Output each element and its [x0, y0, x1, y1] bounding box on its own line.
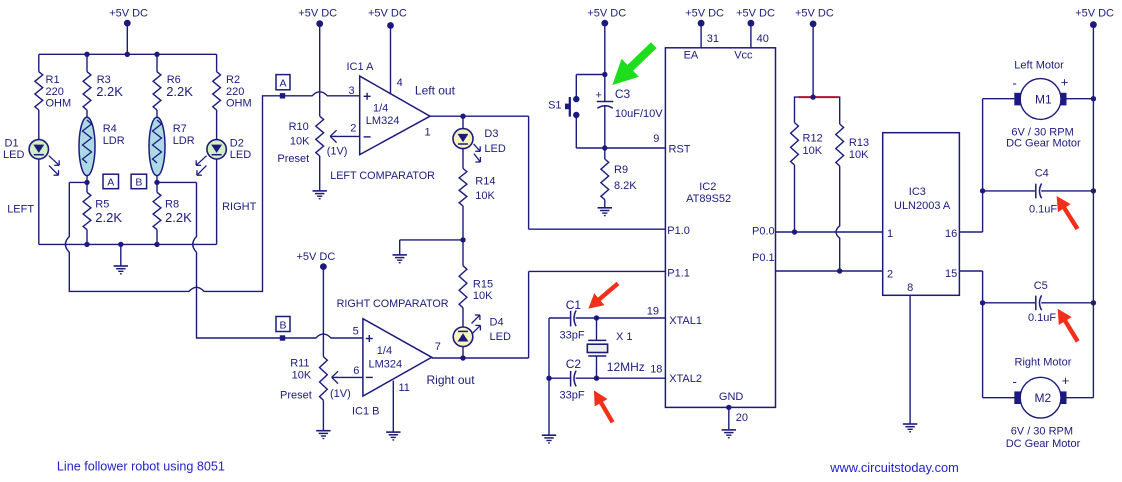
- junction dot R14/R15: [460, 237, 465, 242]
- junction dots ground rail: [84, 242, 159, 247]
- label LEFT COMPARATOR: [330, 170, 435, 182]
- wire P0.1 to IC3 pin 2: [776, 268, 883, 273]
- IC U3 ULN2003A body: [883, 133, 960, 296]
- svg-text:0.1uF: 0.1uF: [1028, 312, 1056, 324]
- wire RST to IC2 pin 9: [576, 133, 665, 148]
- preset R10 10K: [277, 116, 347, 191]
- svg-text:+5V DC: +5V DC: [736, 8, 775, 20]
- label Left out: [415, 83, 456, 97]
- svg-text:www.circuitstoday.com: www.circuitstoday.com: [829, 460, 958, 475]
- svg-text:R12: R12: [803, 133, 823, 145]
- svg-text:Right Motor: Right Motor: [1015, 357, 1072, 369]
- D1 emission arrows: [49, 156, 59, 176]
- svg-text:R7: R7: [173, 123, 187, 135]
- svg-text:33pF: 33pF: [560, 329, 585, 341]
- svg-text:-: -: [1013, 374, 1017, 389]
- capacitor C5 0.1uF: [980, 280, 1096, 324]
- push button S1: [548, 75, 605, 149]
- svg-text:IC2: IC2: [699, 181, 716, 193]
- svg-text:C1: C1: [566, 298, 582, 312]
- svg-text:1/4: 1/4: [373, 103, 388, 115]
- svg-text:2.2K: 2.2K: [96, 84, 123, 99]
- svg-text:3: 3: [349, 85, 355, 97]
- svg-text:R13: R13: [849, 137, 869, 149]
- junction dot RST: [602, 145, 607, 150]
- svg-text:XTAL1: XTAL1: [669, 315, 702, 327]
- D4 emission arrows: [472, 315, 481, 334]
- svg-text:6: 6: [353, 365, 359, 377]
- wire IC1B output to IC2 P1.1: [432, 271, 666, 358]
- svg-text:LDR: LDR: [103, 135, 125, 147]
- svg-text:4: 4: [397, 77, 403, 89]
- +5V DC supply (sensor block): [109, 8, 148, 55]
- svg-text:A: A: [279, 78, 286, 90]
- svg-text:1: 1: [425, 126, 431, 138]
- svg-text:10K: 10K: [849, 149, 869, 161]
- node B label box: [131, 174, 147, 189]
- svg-text:RIGHT COMPARATOR: RIGHT COMPARATOR: [337, 298, 449, 310]
- svg-text:IC1 A: IC1 A: [347, 61, 375, 73]
- op-amp IC1B 1/4 LM324: [352, 319, 441, 418]
- ground spur (R14/R15 node): [393, 240, 464, 263]
- LED D1: [3, 137, 49, 244]
- svg-text:10K: 10K: [803, 145, 823, 157]
- +5V DC supply (R10 preset): [298, 8, 337, 117]
- svg-text:AT89S52: AT89S52: [686, 193, 731, 205]
- resistor R14 10K: [459, 169, 495, 240]
- svg-text:9: 9: [653, 133, 659, 145]
- svg-text:+5V DC: +5V DC: [298, 8, 337, 20]
- motor M2: [1006, 357, 1094, 451]
- resistor R8 2.2K: [153, 182, 192, 244]
- ground (R11): [316, 431, 330, 439]
- red arrow pointing at C5: [1058, 309, 1080, 343]
- +5V DC supply (R11 preset): [296, 251, 335, 357]
- svg-text:R1: R1: [46, 74, 60, 86]
- svg-text:C3: C3: [615, 87, 631, 101]
- wire IC3 pin 15 to right motor: [959, 271, 1014, 398]
- node A label box: [103, 174, 119, 189]
- svg-text:+5V DC: +5V DC: [587, 8, 626, 20]
- junction dot XTAL2: [594, 376, 599, 381]
- svg-text:-: -: [1013, 76, 1017, 91]
- svg-text:8.2K: 8.2K: [614, 180, 637, 192]
- svg-text:5: 5: [353, 325, 359, 337]
- svg-text:B: B: [279, 319, 286, 331]
- svg-text:DC Gear Motor: DC Gear Motor: [1006, 438, 1081, 450]
- power rail +5V sensor block: [39, 53, 217, 55]
- node B label box at comparator: [276, 317, 290, 332]
- svg-text:X 1: X 1: [616, 331, 633, 343]
- svg-text:31: 31: [707, 33, 719, 45]
- svg-text:R9: R9: [614, 164, 628, 176]
- IC1B pin 11 ground wire: [386, 381, 400, 440]
- svg-text:10K: 10K: [292, 370, 312, 382]
- svg-text:16: 16: [945, 228, 957, 240]
- svg-text:LM324: LM324: [369, 359, 403, 371]
- svg-text:+5V DC: +5V DC: [1075, 8, 1114, 20]
- svg-text:18: 18: [650, 364, 662, 376]
- svg-text:19: 19: [647, 305, 659, 317]
- LED D3: [453, 116, 506, 168]
- svg-text:+5V DC: +5V DC: [795, 8, 834, 20]
- svg-text:LEFT: LEFT: [7, 203, 34, 215]
- svg-text:8: 8: [907, 282, 913, 294]
- label RIGHT COMPARATOR: [337, 298, 449, 310]
- label LEFT: [7, 203, 34, 215]
- node A junction: [84, 180, 89, 185]
- +5V DC supply (pull-ups): [795, 8, 834, 98]
- red arrow pointing at C1: [588, 282, 619, 309]
- svg-text:R2: R2: [226, 74, 240, 86]
- svg-text:RIGHT: RIGHT: [222, 201, 257, 213]
- svg-text:M2: M2: [1035, 391, 1052, 405]
- node B tap square: [280, 335, 285, 340]
- svg-text:D2: D2: [230, 137, 244, 149]
- LDR R4: [79, 117, 125, 182]
- svg-text:M1: M1: [1035, 92, 1052, 106]
- svg-text:+5V DC: +5V DC: [109, 8, 148, 20]
- svg-text:+5V DC: +5V DC: [685, 8, 724, 20]
- svg-text:S1: S1: [548, 100, 561, 112]
- svg-text:10uF/10V: 10uF/10V: [615, 108, 663, 120]
- svg-text:7: 7: [435, 341, 441, 353]
- svg-text:220: 220: [46, 86, 64, 98]
- junction dot M1 right: [1091, 96, 1096, 101]
- node A label box at comparator: [276, 75, 290, 90]
- svg-text:2: 2: [887, 269, 893, 281]
- svg-text:2.2K: 2.2K: [166, 84, 193, 99]
- D3 emission arrows: [474, 144, 481, 162]
- svg-text:2.2K: 2.2K: [165, 210, 192, 225]
- svg-text:12MHz: 12MHz: [607, 360, 645, 374]
- title text: [57, 459, 225, 473]
- IC3 pin 8 ground: [903, 295, 917, 432]
- svg-text:GND: GND: [719, 391, 744, 403]
- svg-text:RST: RST: [669, 143, 691, 155]
- svg-text:LDR: LDR: [173, 135, 195, 147]
- ground (R10): [313, 191, 327, 199]
- label pin 19: [647, 305, 659, 317]
- svg-text:Vcc: Vcc: [734, 49, 753, 61]
- svg-text:+: +: [1061, 75, 1069, 90]
- svg-text:Preset: Preset: [280, 389, 312, 401]
- resistor R6 2.2K: [153, 54, 193, 117]
- svg-text:LED: LED: [3, 149, 24, 161]
- IC2 pin Vcc 40: [734, 8, 775, 62]
- svg-text:10K: 10K: [475, 190, 495, 202]
- svg-text:0.1uF: 0.1uF: [1029, 204, 1057, 216]
- motor M1: [1006, 60, 1093, 150]
- svg-text:33pF: 33pF: [560, 389, 585, 401]
- +5V DC supply (reset): [587, 8, 626, 102]
- svg-text:(1V): (1V): [330, 388, 351, 400]
- svg-text:D4: D4: [490, 317, 504, 329]
- svg-text:B: B: [135, 177, 142, 189]
- svg-text:R4: R4: [103, 123, 117, 135]
- svg-text:Preset: Preset: [277, 153, 309, 165]
- red arrow pointing at C4: [1057, 196, 1080, 230]
- svg-text:C5: C5: [1034, 280, 1048, 292]
- resistor R9 8.2K: [601, 148, 637, 208]
- svg-text:OHM: OHM: [46, 97, 72, 109]
- node A tap square: [280, 93, 285, 98]
- svg-text:+: +: [1062, 373, 1070, 388]
- junction dot XTAL1: [594, 315, 599, 320]
- LED D4: [453, 317, 511, 358]
- IC2 pin labels right: [752, 225, 775, 264]
- svg-text:11: 11: [399, 382, 410, 394]
- resistor R2 220 OHM: [213, 54, 252, 140]
- preset R11 10K: [280, 357, 351, 431]
- resistor R12 10K: [791, 123, 823, 232]
- svg-text:XTAL2: XTAL2: [669, 373, 702, 385]
- svg-text:R5: R5: [95, 198, 109, 210]
- pull-up bus bar: [795, 94, 840, 124]
- resistor R1 220 OHM: [35, 54, 71, 140]
- resistor R15 10K: [459, 240, 493, 327]
- svg-text:+5V DC: +5V DC: [296, 251, 335, 263]
- svg-text:220: 220: [226, 86, 244, 98]
- svg-text:R11: R11: [290, 357, 309, 369]
- red arrow pointing at C2: [594, 390, 615, 423]
- ground (sensor block): [114, 244, 128, 273]
- svg-text:LM324: LM324: [366, 115, 400, 127]
- LDR R7: [149, 117, 195, 182]
- svg-text:Right out: Right out: [427, 373, 476, 387]
- R11 wiper arrow to IC1B pin 6: [332, 371, 363, 383]
- svg-text:D3: D3: [484, 128, 498, 140]
- svg-text:2: 2: [350, 122, 356, 134]
- IC2 pin GND 20: [719, 391, 748, 438]
- node B junction: [154, 180, 159, 185]
- svg-text:EA: EA: [684, 49, 699, 61]
- svg-text:6V / 30 RPM: 6V / 30 RPM: [1011, 426, 1073, 438]
- ground (R9): [598, 208, 612, 216]
- wire IC3 pin 16 to left motor: [959, 99, 1014, 232]
- svg-text:(1V): (1V): [327, 146, 348, 158]
- svg-text:P1.0: P1.0: [667, 225, 690, 237]
- svg-text:LEFT COMPARATOR: LEFT COMPARATOR: [330, 170, 435, 182]
- resistor R5 2.2K: [83, 182, 122, 244]
- +5V DC supply (motors): [1075, 8, 1114, 398]
- svg-text:ULN2003 A: ULN2003 A: [894, 200, 951, 212]
- svg-text:R10: R10: [289, 121, 309, 133]
- svg-text:R8: R8: [165, 198, 179, 210]
- svg-text:20: 20: [736, 412, 748, 424]
- svg-text:+: +: [596, 89, 602, 101]
- wire IC1A output to IC2 P1.0: [430, 116, 665, 229]
- svg-text:40: 40: [757, 33, 769, 45]
- label pin 18: [650, 364, 662, 376]
- svg-text:P0.1: P0.1: [752, 252, 775, 264]
- svg-text:A: A: [107, 177, 114, 189]
- svg-text:R14: R14: [475, 176, 495, 188]
- LED D2: [207, 137, 251, 244]
- crystal X1 12MHz: [587, 318, 645, 378]
- svg-text:IC3: IC3: [909, 186, 926, 198]
- svg-text:1/4: 1/4: [377, 345, 392, 357]
- label Right out: [427, 373, 476, 387]
- label RIGHT: [222, 201, 257, 213]
- svg-text:IC1 B: IC1 B: [352, 405, 380, 417]
- website text: [829, 460, 958, 475]
- svg-text:P0.0: P0.0: [752, 225, 775, 237]
- capacitor C1 33pF: [549, 298, 665, 342]
- svg-text:C4: C4: [1035, 167, 1049, 179]
- IC2 pin EA 31: [684, 8, 724, 62]
- svg-text:DC Gear Motor: DC Gear Motor: [1006, 138, 1081, 150]
- svg-text:LED: LED: [490, 331, 511, 343]
- IC3 pin number labels: [887, 228, 957, 294]
- svg-text:Left Motor: Left Motor: [1014, 60, 1064, 72]
- resistor R3 2.2K: [83, 54, 123, 117]
- wire C1/C2 ground leg: [542, 318, 556, 443]
- IC2 pin labels left: [667, 143, 702, 384]
- svg-text:Line follower robot using 8051: Line follower robot using 8051: [57, 459, 225, 473]
- svg-text:C2: C2: [566, 357, 582, 371]
- junction dot left out: [460, 114, 465, 119]
- junction dot right out: [460, 355, 465, 360]
- svg-text:OHM: OHM: [226, 97, 252, 109]
- junction dots on sensor rail: [84, 52, 159, 57]
- capacitor C2 33pF: [549, 357, 665, 401]
- svg-text:D1: D1: [5, 137, 19, 149]
- junction dot reset top: [602, 72, 607, 77]
- resistor R13 10K: [836, 124, 869, 271]
- svg-text:LED: LED: [484, 143, 505, 155]
- IC1A pin 4 +5V: [368, 8, 407, 94]
- green arrow pointing at C3: [612, 42, 656, 85]
- svg-text:10K: 10K: [290, 136, 310, 148]
- IC U2 AT89S52 body: [665, 48, 775, 408]
- svg-text:1: 1: [887, 228, 893, 240]
- svg-text:10K: 10K: [473, 290, 493, 302]
- wire P0.0 to IC3 pin 1: [776, 229, 883, 234]
- wire node A to IC1A pin 3: [65, 92, 359, 292]
- svg-text:15: 15: [945, 268, 957, 280]
- svg-text:+5V DC: +5V DC: [368, 8, 407, 20]
- R10 wiper arrow to IC1A pin 2: [330, 130, 360, 142]
- svg-text:LED: LED: [230, 149, 251, 161]
- D2 emission arrows: [196, 156, 206, 176]
- wire node B to IC1B pin 5: [157, 182, 363, 338]
- capacitor C3 10uF/10V: [596, 87, 664, 148]
- op-amp IC1A 1/4 LM324: [347, 61, 431, 155]
- sensor ground rail: [39, 243, 217, 245]
- svg-text:Left out: Left out: [415, 83, 456, 97]
- svg-text:2.2K: 2.2K: [95, 210, 122, 225]
- svg-text:P1.1: P1.1: [667, 268, 690, 280]
- svg-text:R15: R15: [473, 279, 493, 291]
- capacitor C4 0.1uF: [980, 167, 1096, 215]
